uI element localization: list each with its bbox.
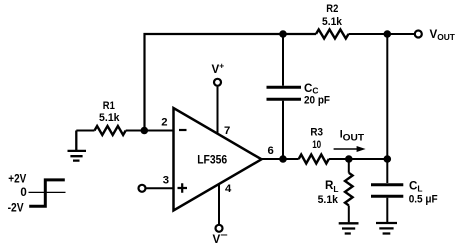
wire node B to RL bbox=[348, 159, 350, 173]
wire RL to ground bbox=[348, 206, 350, 223]
svg-text:5.1k: 5.1k bbox=[318, 194, 339, 206]
wire node B to node C bbox=[349, 158, 388, 160]
svg-text:-2V: -2V bbox=[8, 202, 24, 214]
wire ground to R1 bbox=[76, 130, 94, 132]
svg-text:R1: R1 bbox=[103, 100, 115, 112]
wire CC upper branch bbox=[282, 34, 284, 86]
node A inverting input junction bbox=[141, 127, 149, 135]
wire feedback loop (node A to top row) bbox=[145, 34, 317, 131]
svg-text:20 pF: 20 pF bbox=[304, 94, 330, 106]
wire pin 4 bbox=[218, 184, 220, 225]
wire pin 6 output bbox=[262, 158, 299, 160]
svg-text:4: 4 bbox=[225, 183, 232, 195]
capacitor CL bbox=[371, 185, 403, 197]
svg-text:RL: RL bbox=[325, 179, 339, 194]
wire R2 right to output node bbox=[349, 33, 388, 35]
svg-text:5.1k: 5.1k bbox=[99, 112, 120, 124]
resistor R3 bbox=[299, 155, 329, 164]
svg-text:LF356: LF356 bbox=[197, 154, 227, 167]
svg-text:10: 10 bbox=[312, 139, 321, 151]
node C (CL junction) bbox=[384, 155, 392, 163]
terminal V- bbox=[216, 225, 223, 232]
ground (RL) bbox=[339, 223, 359, 233]
svg-text:VOUT: VOUT bbox=[430, 28, 456, 42]
wire R1 to node A bbox=[126, 130, 145, 132]
square wave input symbol: zero axis bbox=[29, 191, 66, 193]
svg-text:R2: R2 bbox=[326, 3, 338, 15]
op-amp U1 LF356 bbox=[174, 108, 262, 211]
square wave input symbol: step waveform bbox=[29, 180, 65, 206]
wire output node to VOUT terminal bbox=[387, 33, 414, 35]
wire pin 7 bbox=[217, 87, 219, 134]
terminal V+ bbox=[214, 79, 221, 86]
svg-text:3: 3 bbox=[163, 175, 169, 187]
wire CC lower branch bbox=[282, 101, 284, 159]
svg-text:R3: R3 bbox=[310, 127, 323, 139]
svg-text:+2V: +2V bbox=[8, 173, 26, 185]
arrow IOUT bbox=[334, 148, 358, 150]
terminal VOUT bbox=[415, 31, 422, 38]
svg-text:IOUT: IOUT bbox=[340, 129, 365, 144]
wire pin 3 bbox=[146, 187, 173, 189]
node B (RL junction) bbox=[345, 155, 353, 163]
svg-text:0: 0 bbox=[20, 187, 26, 199]
ground (CL) bbox=[376, 223, 397, 234]
wire output node down to node C bbox=[386, 34, 388, 159]
svg-text:2: 2 bbox=[161, 117, 167, 129]
node top-right junction (R2/VOUT) bbox=[384, 30, 392, 38]
plus sign (non-inverting input) bbox=[178, 183, 188, 192]
node top-left junction (CC/feedback) bbox=[279, 30, 287, 38]
svg-text:0.5 μF: 0.5 μF bbox=[409, 193, 438, 205]
node output/CC junction bbox=[279, 155, 287, 163]
svg-text:V+: V+ bbox=[212, 60, 225, 76]
wire node A to pin 2 bbox=[145, 130, 174, 132]
resistor RL bbox=[345, 173, 353, 206]
wire node C to CL bbox=[386, 159, 388, 183]
resistor R2 bbox=[316, 30, 349, 39]
resistor R1 bbox=[95, 126, 126, 135]
svg-text:6: 6 bbox=[268, 145, 274, 157]
svg-text:5.1k: 5.1k bbox=[322, 16, 343, 28]
svg-text:7: 7 bbox=[224, 125, 230, 137]
terminal input (pin 3) bbox=[139, 185, 146, 192]
minus sign (inverting input) bbox=[179, 129, 187, 131]
wire CL to ground bbox=[386, 198, 388, 222]
wire R3 to node B bbox=[329, 158, 349, 160]
capacitor CC bbox=[267, 87, 302, 99]
svg-text:V−: V− bbox=[213, 230, 228, 246]
ground (input side) bbox=[68, 131, 87, 161]
svg-text:CL: CL bbox=[409, 179, 423, 193]
